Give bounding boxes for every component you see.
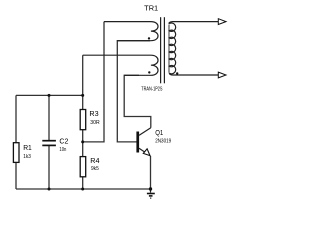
svg-text:2N3019: 2N3019 [155,139,171,145]
svg-text:9k5: 9k5 [91,166,99,172]
svg-text:1k3: 1k3 [23,154,31,160]
svg-text:10n: 10n [59,147,66,153]
svg-text:TR1: TR1 [144,4,158,13]
svg-text:R1: R1 [23,143,32,152]
svg-text:R3: R3 [89,109,98,118]
svg-text:TRAN-1P2S: TRAN-1P2S [141,86,162,92]
svg-text:Q1: Q1 [155,128,163,137]
svg-text:30R: 30R [90,120,99,126]
svg-text:R4: R4 [90,156,99,165]
svg-text:C2: C2 [59,137,68,146]
